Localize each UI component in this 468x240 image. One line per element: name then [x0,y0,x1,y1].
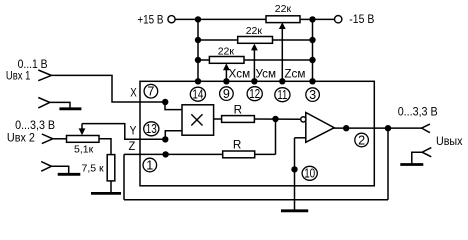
wire source2 to ground [51,166,68,173]
node pin12 top [251,78,257,84]
ground source1 chevron [38,98,50,108]
svg-text:12: 12 [249,87,260,101]
wiper 5,1k arrow [81,124,83,129]
op-amp inverting bubble [301,117,306,122]
multiplier X box [182,105,214,135]
ground bar source3 [400,163,423,166]
wire R top to opamp [254,118,301,120]
wire Uvx2 to pot [53,138,67,140]
svg-text:+15 В: +15 В [137,14,163,27]
node pin3 top [309,78,315,84]
ground bar source1 [59,107,81,110]
svg-text:3: 3 [309,88,316,102]
node rrail-mid [309,37,315,43]
terminal -15V [335,16,342,23]
ground bar source2 [58,173,81,176]
svg-text:Uвх 2: Uвх 2 [7,132,35,145]
wire noninv input [295,137,306,139]
svg-text:13: 13 [146,122,157,136]
ground bar 7,5k [91,192,121,195]
potentiometer R3 22k bottom [198,59,209,61]
pin 3 [306,88,320,102]
pin 2 [355,133,369,147]
wiper top pot [281,29,283,82]
wire R bottom to node [255,153,276,155]
svg-text:0...3,3 В: 0...3,3 В [398,106,438,119]
multiplier X cross [191,114,202,125]
ground bar main [281,209,308,212]
terminal Uvx2 chevron [42,134,53,144]
node rrail-top [309,16,315,22]
svg-text:10: 10 [304,167,315,181]
svg-text:Zсм: Zсм [284,67,305,80]
chip U1 box [140,81,374,186]
wire Z feedback vertical [123,154,125,199]
svg-text:7: 7 [147,85,154,99]
svg-text:Усм: Усм [256,67,277,80]
wire X to multiplier [165,102,182,110]
wiper middle pot [253,50,255,81]
terminal Uvx1 chevron [38,70,51,81]
pin 14 [190,87,205,101]
wire feedback right vertical [387,128,389,200]
svg-text:-15 В: -15 В [349,13,374,26]
pin 11 [275,88,290,102]
svg-text:Z: Z [129,140,136,153]
wire source3 to ground [412,152,422,163]
node output inner [343,125,349,131]
potentiometer R2 22k middle [198,39,238,41]
potentiometer 5,1k [67,136,100,143]
node rail-mid [195,37,201,43]
node pin14 top [195,78,201,84]
wire +15V to rail [175,18,198,20]
node Y [162,136,168,142]
node rrail-bot [309,57,315,63]
ground source3 chevron [422,148,431,157]
pin 10 [302,166,317,180]
svg-text:22к: 22к [218,45,235,57]
wire pot to resistor 7,5k [99,139,111,155]
resistor R bottom [223,151,255,158]
svg-text:1: 1 [146,158,153,172]
svg-text:R: R [234,103,242,116]
wire right rail [312,19,314,81]
pin 13 [144,122,159,136]
node Z [162,151,168,157]
pin 9 [220,87,234,101]
node X [162,99,168,105]
node opamp-in [272,116,278,122]
svg-text:2: 2 [358,133,365,147]
terminal +15V [168,16,175,23]
wire feedback bottom [124,199,388,201]
node pin10 [291,166,297,172]
svg-text:5,1к: 5,1к [74,144,94,156]
potentiometer R1 22k top [198,18,266,20]
svg-text:7,5 к: 7,5 к [82,162,105,174]
svg-text:14: 14 [192,88,203,102]
svg-text:0...3,3 В: 0...3,3 В [15,119,55,132]
node rail-top [195,16,201,22]
terminal Uvyx chevron [422,124,430,133]
wiper bottom pot [225,70,227,81]
svg-text:Uвх 1: Uвх 1 [6,69,31,82]
resistor 7,5k [107,155,115,181]
node pin11 top [279,78,285,84]
wire wiper to Y [82,124,165,140]
node output outer [385,125,391,131]
pin 1 [143,158,157,172]
wire source1 to ground [50,102,70,108]
wire Y to multiplier [165,131,182,140]
resistor R top [222,116,255,123]
svg-text:22к: 22к [246,25,263,37]
wire left rail [197,19,199,81]
op-amp A1 triangle [306,113,334,143]
wire -15V to rail [313,18,335,20]
svg-text:Uвых: Uвых [436,135,463,148]
wire multiplier out [214,118,222,120]
svg-text:9: 9 [223,87,230,101]
pin 7 [144,84,158,98]
wire Uvx1 to X [51,75,165,102]
wire noninv to ground [294,138,296,211]
svg-text:X: X [130,87,137,100]
svg-text:Хсм: Хсм [229,67,251,80]
node pin9 top [223,78,229,84]
svg-text:11: 11 [277,88,287,102]
ground source2 chevron [41,162,51,172]
svg-text:Y: Y [130,125,137,138]
node rail-bot [195,57,201,63]
wire 7,5k to ground [110,181,112,192]
pin 12 [247,87,262,101]
wire Z row [124,153,223,155]
wire opamp-in down [275,119,277,154]
svg-text:R: R [233,139,241,152]
wire opamp output [334,127,422,129]
svg-text:22к: 22к [275,3,292,15]
